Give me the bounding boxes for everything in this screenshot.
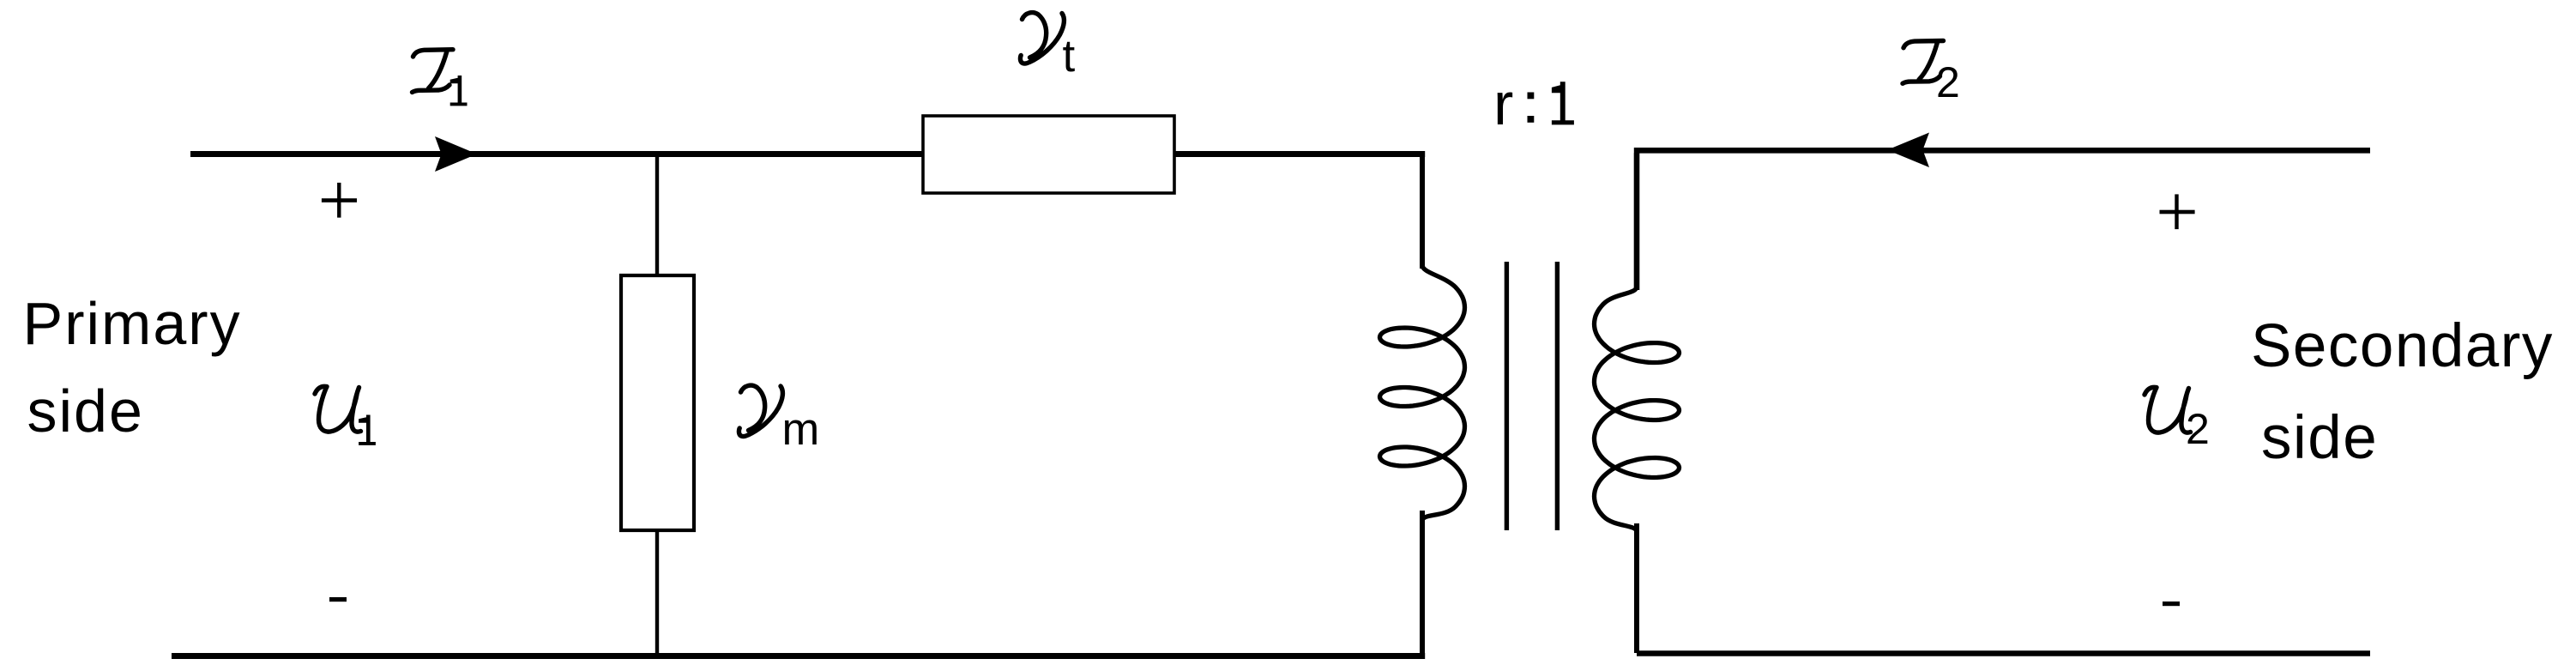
svg-text:Secondary: Secondary [2251, 312, 2554, 380]
svg-text:side: side [27, 378, 144, 444]
svg-text:2: 2 [2186, 405, 2210, 453]
svg-text:side: side [2261, 404, 2378, 472]
svg-text:t: t [1063, 31, 1076, 82]
svg-text:r: r [1493, 70, 1513, 137]
svg-text:m: m [782, 404, 820, 455]
svg-text:2: 2 [1936, 58, 1960, 106]
svg-text:Primary: Primary [23, 290, 242, 357]
